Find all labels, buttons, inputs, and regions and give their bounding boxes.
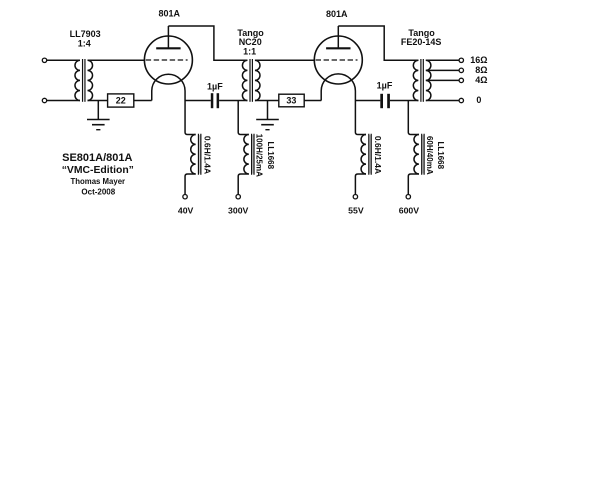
svg-text:0.6H/1.4A: 0.6H/1.4A: [202, 136, 212, 174]
svg-text:0.6H/1.4A: 0.6H/1.4A: [373, 136, 383, 174]
label 40V: [178, 206, 194, 216]
svg-text:1µF: 1µF: [377, 81, 393, 91]
plate choke L2 LL1668 100H/25mA: [238, 101, 275, 195]
wire T2 secondary top to grid U2: [255, 59, 315, 61]
label 1uF C2: [377, 81, 393, 91]
label 8Ω: [475, 65, 487, 75]
svg-text:“VMC-Edition”: “VMC-Edition”: [62, 165, 134, 176]
wire T1 secondary top to grid U1: [88, 59, 146, 61]
resistor R1 22: [108, 94, 134, 107]
input terminal IN-bottom: [42, 98, 46, 102]
wire T1 secondary bottom: [88, 100, 108, 102]
wire R1 to filament U1: [134, 100, 152, 102]
wire tap 16Ω: [426, 59, 459, 61]
svg-text:801A: 801A: [158, 9, 180, 19]
wire tap 8Ω: [426, 69, 459, 71]
label 1uF C1: [207, 81, 223, 91]
ground input: [87, 101, 110, 130]
svg-text:SE801A/801A: SE801A/801A: [62, 152, 132, 164]
output terminal 0: [459, 98, 463, 102]
label 600V: [399, 206, 419, 216]
capacitor C2 1uF: [380, 94, 390, 108]
svg-text:40V: 40V: [178, 206, 194, 216]
plate choke L4 LL1668 60H/40mA: [408, 101, 445, 195]
svg-text:Thomas Mayer: Thomas Mayer: [70, 177, 125, 186]
wire T2 secondary bottom: [255, 100, 279, 102]
output terminal 8Ω: [459, 68, 463, 72]
input terminal IN-top: [42, 58, 46, 62]
wire plate U2 to T3 primary: [338, 26, 418, 60]
output transformer T3 Tango FE20-14S: [413, 59, 431, 102]
label 16Ω: [470, 55, 487, 65]
title block: [62, 152, 134, 196]
label 0: [476, 95, 481, 105]
svg-text:16Ω: 16Ω: [470, 55, 487, 65]
svg-text:300V: 300V: [228, 206, 248, 216]
svg-text:60H/40mA: 60H/40mA: [425, 136, 434, 175]
svg-text:600V: 600V: [399, 206, 419, 216]
svg-text:33: 33: [286, 96, 296, 106]
wire filament U1 to C1: [185, 100, 211, 102]
svg-text:801A: 801A: [326, 9, 348, 19]
filament choke L1 0.6H/1.4A: [185, 101, 212, 195]
label 801A tube1: [158, 9, 180, 19]
triode U2 801A: [314, 26, 362, 101]
resistor R2 33: [279, 94, 304, 107]
wire C1 to T2 primary bottom: [219, 100, 247, 102]
svg-text:8Ω: 8Ω: [475, 65, 487, 75]
label Tango FE20-14S: [401, 28, 442, 47]
svg-text:100H/25mA: 100H/25mA: [255, 134, 264, 177]
wire input bottom: [47, 100, 80, 102]
wire filament U2 to C2: [355, 100, 380, 102]
svg-text:22: 22: [116, 96, 126, 106]
triode U1 801A: [144, 26, 192, 101]
svg-text:LL1668: LL1668: [266, 142, 275, 170]
label Tango NC20 1:1: [237, 28, 264, 57]
terminal 40V: [183, 195, 187, 199]
output terminal 16Ω: [459, 58, 463, 62]
svg-text:1:1: 1:1: [243, 47, 256, 57]
svg-text:LL1668: LL1668: [436, 142, 445, 170]
wire R2 to filament U2: [304, 100, 321, 102]
svg-text:Oct-2008: Oct-2008: [81, 187, 115, 196]
svg-text:1µF: 1µF: [207, 81, 223, 91]
output terminal 4Ω: [459, 78, 463, 82]
filament choke L3 0.6H/1.4A: [355, 101, 382, 195]
wire tap 4Ω: [426, 79, 459, 81]
terminal 600V: [406, 195, 410, 199]
svg-text:NC20: NC20: [239, 37, 262, 47]
ground interstage: [256, 101, 279, 130]
capacitor C1 1uF: [211, 93, 219, 108]
svg-text:0: 0: [476, 95, 481, 105]
terminal 55V: [353, 195, 357, 199]
interstage transformer T2 Tango NC20: [242, 59, 260, 102]
input transformer T1 LL7903: [75, 59, 93, 102]
wire input top: [47, 59, 80, 61]
svg-text:1:4: 1:4: [78, 38, 91, 48]
svg-text:FE20-14S: FE20-14S: [401, 37, 442, 47]
svg-text:55V: 55V: [348, 206, 364, 216]
svg-text:4Ω: 4Ω: [475, 75, 487, 85]
label 300V: [228, 206, 248, 216]
label 4Ω: [475, 75, 487, 85]
label 55V: [348, 206, 364, 216]
wire C2 to T3 primary bottom: [390, 100, 419, 102]
wire tap 0: [426, 100, 459, 102]
wire plate U1 to T2 primary: [168, 26, 247, 60]
terminal 300V: [236, 195, 240, 199]
label LL7903 1:4: [70, 29, 101, 48]
label 801A tube2: [326, 9, 348, 19]
